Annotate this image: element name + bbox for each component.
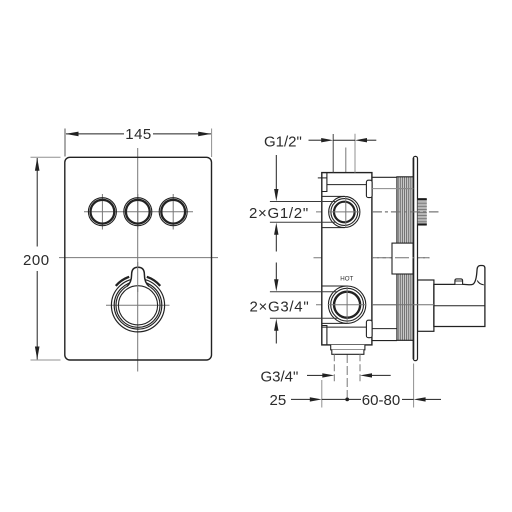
bottom port middle circle <box>331 288 364 321</box>
knob lever tab outline <box>127 267 149 286</box>
dim 2xG1/2 tick bottom <box>270 221 336 223</box>
dim 200 line upper <box>36 158 38 247</box>
sleeve left edge <box>396 177 398 341</box>
button 2 outer ring <box>124 198 152 226</box>
button 2 inner ring <box>126 200 150 224</box>
sleeve nut band <box>392 243 413 274</box>
dim 2xG1/2 arrow top <box>274 155 278 201</box>
dim 2xG3/4 arrow bottom <box>274 319 278 344</box>
svg-text:2×G1/2": 2×G1/2" <box>249 205 309 222</box>
knob ring outer <box>114 282 162 330</box>
bottom port boss upper tangent <box>322 285 347 287</box>
knob inner circle <box>118 286 157 325</box>
dim 60-80 tail <box>425 398 441 400</box>
dim G3/4 arrow right <box>360 373 372 377</box>
body right clip top <box>366 180 372 197</box>
plate horizontal centerline <box>59 257 218 259</box>
side view vertical centerline <box>345 148 347 355</box>
button 3 inner ring <box>161 200 185 224</box>
dim 2xG3/4 arrow top <box>274 263 278 292</box>
dim 200 top extension <box>31 156 61 158</box>
knob arrow arc left <box>116 277 129 286</box>
svg-text:200: 200 <box>23 252 50 269</box>
button 3 outer ring <box>159 198 187 226</box>
dim line between <box>322 398 361 400</box>
dim G1/2 right extension line <box>354 134 356 173</box>
dim G3/4 arrow left <box>322 373 334 377</box>
dim 25 line <box>291 398 311 400</box>
dim G1/2 line <box>333 139 355 141</box>
button 3 crosshair <box>172 194 174 230</box>
row1 port centerline <box>316 211 369 213</box>
body internal line top <box>327 184 367 186</box>
top port outer circle <box>329 196 360 227</box>
dim 200 arrow bottom <box>35 347 40 360</box>
handle body <box>434 266 485 327</box>
top port boss upper tangent <box>322 195 345 197</box>
top port vertical centerline redraw <box>345 196 347 227</box>
top port crosshair redraw <box>329 211 360 213</box>
knob arrow arc right <box>147 277 160 286</box>
dim 200 arrow top <box>35 158 40 171</box>
neck top gray line <box>372 188 413 190</box>
dim 2xG3/4 tick top <box>270 291 338 293</box>
main centerline overlay <box>372 257 430 259</box>
dim G3/4 tail right <box>372 374 391 376</box>
bottom port crosshair redraw <box>328 304 366 306</box>
body bottom-left notch <box>322 326 327 345</box>
knob ring inner <box>116 283 160 327</box>
sleeve top edge <box>396 176 413 178</box>
wall plate <box>413 156 417 360</box>
body right clip bottom <box>366 320 372 338</box>
dim 145 left extension <box>64 129 66 157</box>
outlet spigot step 1 <box>331 345 365 350</box>
knob outer circle <box>111 279 164 332</box>
knob lever tab fill <box>127 267 149 288</box>
row1 centerline dashed through plate <box>372 211 439 213</box>
dim G1/2 tail right <box>366 139 376 141</box>
dim G1/2 arrow right <box>355 138 367 142</box>
dim 2xG1/2 arrow bottom <box>274 223 278 252</box>
top port boss lower tangent <box>322 227 345 229</box>
handle base cylinder <box>418 280 434 331</box>
main horizontal centerline (dash-dot) <box>314 257 430 259</box>
dim 145 arrow right <box>198 132 211 137</box>
knob horizontal crosshair <box>106 304 170 306</box>
top port middle circle <box>331 199 358 226</box>
faceplate outline <box>65 157 212 360</box>
dim 2xG3/4 tick bottom <box>270 317 338 319</box>
handle top button <box>455 279 463 284</box>
neck bottom line upper <box>372 328 397 330</box>
button 1 outer ring <box>88 198 116 226</box>
dim 145 right extension <box>211 129 213 158</box>
valve body outline <box>322 173 372 345</box>
threaded sleeve fill <box>397 177 414 341</box>
dim 200 bottom extension <box>31 359 61 361</box>
dim G1/2 arrow left <box>321 138 333 142</box>
dim 60-80 arrow <box>414 397 426 401</box>
bottom port outer circle <box>328 286 365 323</box>
wall plate left face emphasis <box>413 158 415 359</box>
dim 145 line left <box>66 133 124 135</box>
button row centerline <box>84 211 193 213</box>
dim G3/4 right dashed extension <box>359 354 361 382</box>
svg-text:G1/2": G1/2" <box>264 133 302 150</box>
dim 25/60-80 plate extension <box>413 364 415 408</box>
plate vertical centerline <box>137 148 139 372</box>
centerline overlay through sleeve (neck gray line) <box>397 188 414 190</box>
bottom port inner circle <box>334 292 360 318</box>
dim 145 line right <box>153 133 211 135</box>
sleeve bottom edge <box>396 339 413 341</box>
dim 2xG1/2 tick top <box>270 201 336 203</box>
center dot <box>345 398 349 402</box>
centerline overlay through knob tab <box>137 262 139 292</box>
handle mid line <box>434 305 485 307</box>
neck top dark line <box>372 176 397 178</box>
body internal line bottom <box>322 326 367 328</box>
top port inner circle <box>334 202 355 223</box>
row1 centerline overlay <box>372 211 439 213</box>
dim 25/60-80 body-edge extension <box>321 380 323 408</box>
bottom port boss lower tangent <box>322 322 347 324</box>
button 2 crosshair <box>137 194 139 230</box>
body top-left tick <box>318 177 327 179</box>
svg-text:2×G3/4": 2×G3/4" <box>250 299 310 316</box>
row2 port centerline <box>316 304 434 306</box>
outlet spigot step 2 <box>332 350 364 355</box>
button 1 crosshair <box>101 194 103 230</box>
sleeve thread lines <box>398 177 411 341</box>
dim G1/2 tail left <box>309 139 323 141</box>
row2 centerline overlay <box>372 304 434 306</box>
dim 200 line lower <box>36 271 38 359</box>
dim G3/4 left dashed extension <box>333 354 335 382</box>
dim 145 arrow left <box>66 132 79 137</box>
dim 25 arrow <box>310 397 322 401</box>
neck bottom dark line <box>372 340 397 342</box>
svg-text:G3/4": G3/4" <box>261 368 299 385</box>
svg-text:60-80: 60-80 <box>362 392 400 409</box>
dim G3/4 tail left <box>307 374 323 376</box>
handle flange base fillet line <box>477 281 484 285</box>
svg-text:145: 145 <box>125 126 152 143</box>
button 1 inner ring <box>91 200 115 224</box>
svg-text:25: 25 <box>270 392 287 409</box>
knurled knob <box>418 198 427 226</box>
dim 60-80 line right <box>402 398 414 400</box>
handle top button inner line <box>455 280 463 282</box>
dim G1/2 left extension line <box>332 134 334 173</box>
vertical centerline lower dashed <box>346 354 348 401</box>
body top-left notch <box>322 173 327 192</box>
bottom port vertical centerline redraw <box>346 286 348 323</box>
svg-text:HOT: HOT <box>340 276 353 283</box>
